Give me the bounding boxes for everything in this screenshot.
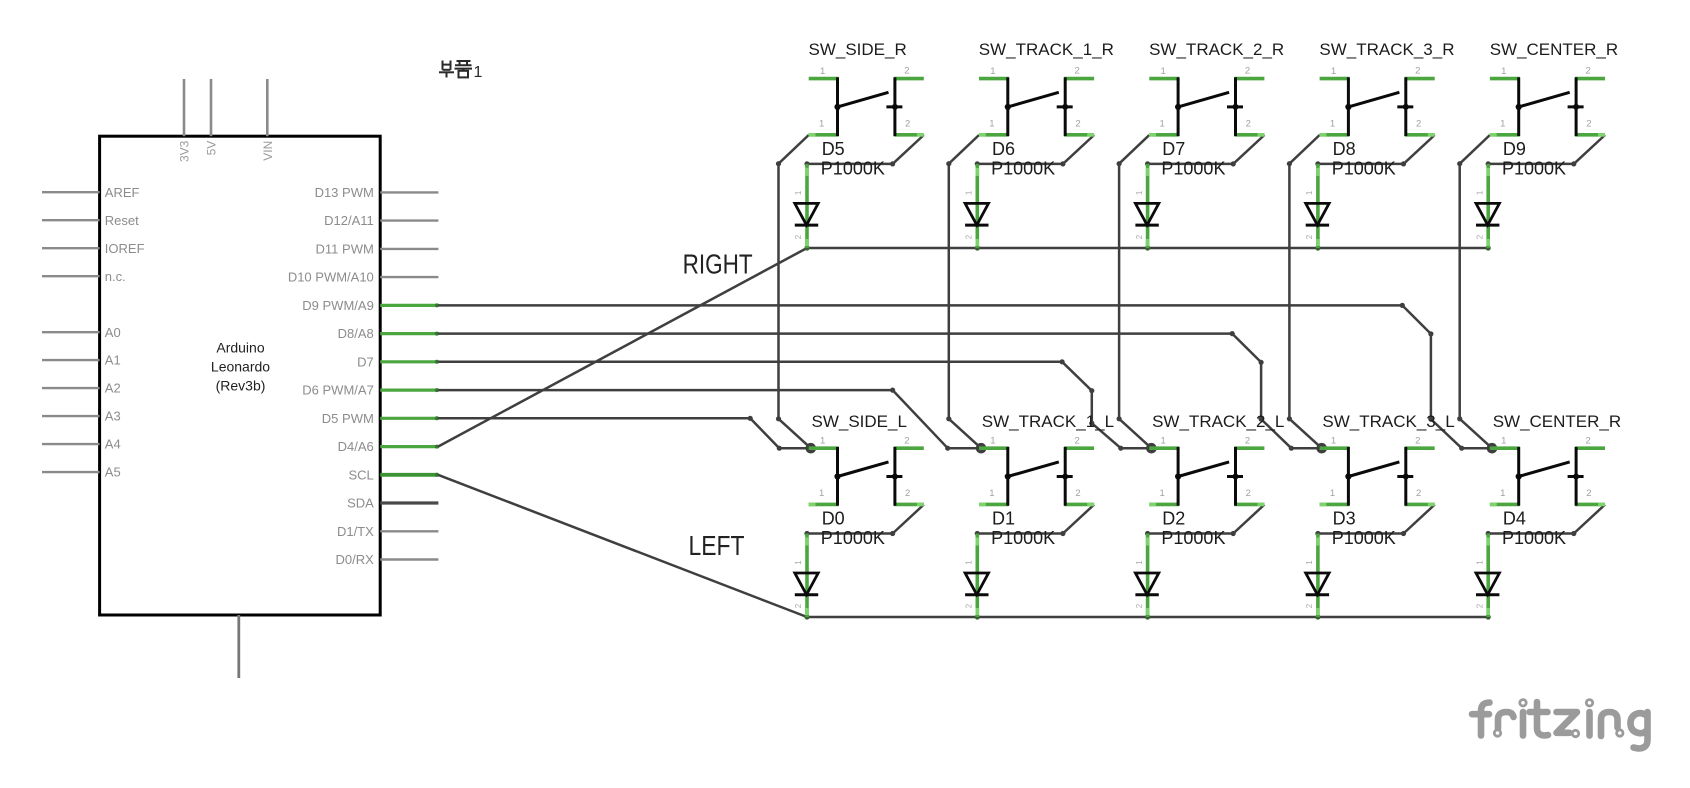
pin D8/A8 [338,326,439,341]
svg-text:1: 1 [1305,190,1314,195]
svg-text:2: 2 [904,66,909,77]
pin Reset [42,213,139,228]
svg-text:A0: A0 [105,325,121,340]
svg-text:A2: A2 [105,381,121,396]
svg-text:1: 1 [1475,560,1484,565]
node SW_TRACK_2_L pin1 junction [1146,443,1157,454]
wire SW_TRACK_2_R pin2 to diode [1145,135,1264,166]
svg-text:2: 2 [1246,119,1251,130]
svg-text:2: 2 [1075,66,1080,77]
diode D6 P1000K [965,139,1056,248]
svg-text:2: 2 [905,119,910,130]
svg-text:D5 PWM: D5 PWM [322,411,374,426]
pin D1/TX [337,524,438,539]
svg-text:SW_TRACK_2_R: SW_TRACK_2_R [1149,40,1284,59]
svg-text:D9 PWM/A9: D9 PWM/A9 [302,298,374,313]
wire SW_TRACK_3_L pin2 to diode [1315,505,1434,537]
pin VIN (top stub) [261,79,275,161]
wire SW_SIDE_R pin2 to diode [804,135,923,166]
node SW_CENTER_R pin1 junction [1487,443,1498,454]
svg-text:2: 2 [1586,119,1591,130]
svg-text:1: 1 [990,66,995,77]
pin SCL [349,467,439,482]
svg-text:2: 2 [904,435,909,446]
wire SW_CENTER_R pin2 to diode [1486,505,1605,537]
pin D5 PWM [322,411,439,426]
diode D5 P1000K [794,139,885,248]
wire D7 row [438,359,1151,451]
svg-text:D7: D7 [357,354,374,369]
svg-text:D12/A11: D12/A11 [324,213,374,228]
svg-text:2: 2 [965,603,974,608]
svg-text:SW_TRACK_3_R: SW_TRACK_3_R [1319,40,1454,59]
svg-text:2: 2 [794,234,803,239]
svg-text:2: 2 [1075,119,1080,130]
svg-text:(Rev3b): (Rev3b) [216,378,266,394]
wire SW_SIDE_L pin2 to diode [804,505,923,537]
svg-text:1: 1 [794,190,803,195]
diode D0 P1000K [794,509,885,617]
wire SW_TRACK_1_R pin2 to diode [975,135,1094,166]
svg-text:SW_TRACK_1_R: SW_TRACK_1_R [979,40,1114,59]
svg-text:1: 1 [820,66,825,77]
svg-text:2: 2 [1135,234,1144,239]
wire column 3 (SW_TRACK_2_R pin1 to SW_TRACK_2_L pin1) [1117,135,1152,448]
svg-text:n.c.: n.c. [105,269,126,284]
pin A5 [42,465,121,480]
svg-text:D9: D9 [1503,139,1526,159]
svg-text:P1000K: P1000K [1161,159,1225,179]
wire D6 PWM/A7 row [438,388,981,451]
svg-text:1: 1 [1160,119,1165,130]
switch SW_TRACK_1_R [979,40,1114,136]
wire SW_TRACK_3_R pin2 to diode [1315,135,1434,166]
node RIGHT net label [683,249,753,280]
pin D12/A11 [324,213,438,228]
wire D8/A8 row [438,331,1322,451]
svg-text:A5: A5 [105,465,121,480]
svg-text:2: 2 [1075,488,1080,499]
pin A2 [42,381,121,396]
wire column 4 (SW_TRACK_3_R pin1 to SW_TRACK_3_L pin1) [1287,135,1322,448]
svg-text:D8/A8: D8/A8 [338,326,374,341]
svg-text:P1000K: P1000K [991,159,1055,179]
svg-text:A3: A3 [105,409,121,424]
svg-text:D8: D8 [1333,139,1356,159]
svg-text:AREF: AREF [105,185,140,200]
svg-text:SW_SIDE_L: SW_SIDE_L [812,412,907,431]
svg-text:1: 1 [820,436,825,447]
svg-text:A1: A1 [105,353,121,368]
svg-text:1: 1 [1331,436,1336,447]
pin D11 PWM [316,242,439,257]
pin GND (bottom stub) [237,615,240,678]
wire column 5 (SW_CENTER_R pin1 to SW_CENTER_R pin1) [1457,135,1492,448]
svg-text:RIGHT: RIGHT [683,249,753,280]
svg-text:2: 2 [1305,603,1314,608]
switch SW_CENTER_R [1490,412,1621,506]
svg-text:1: 1 [1330,488,1335,499]
diode D2 P1000K [1135,509,1226,617]
pin D13 PWM [315,185,439,200]
svg-text:1: 1 [1305,560,1314,565]
svg-text:1: 1 [819,488,824,499]
svg-text:SW_TRACK_1_L: SW_TRACK_1_L [982,412,1114,431]
svg-text:P1000K: P1000K [1161,528,1225,548]
pin SDA [347,496,438,511]
wire D9 PWM/A9 row [438,303,1493,451]
svg-text:2: 2 [1585,435,1590,446]
svg-text:Leonardo: Leonardo [211,359,270,375]
svg-text:1: 1 [1501,66,1506,77]
pin A0 [42,325,121,340]
svg-text:2: 2 [1475,603,1484,608]
svg-text:P1000K: P1000K [821,159,885,179]
svg-text:SW_TRACK_2_L: SW_TRACK_2_L [1152,412,1284,431]
diode D1 P1000K [965,509,1056,617]
svg-text:D2: D2 [1162,509,1185,529]
svg-text:1: 1 [965,190,974,195]
svg-text:D10 PWM/A10: D10 PWM/A10 [288,270,374,285]
svg-text:D0: D0 [822,509,845,529]
svg-text:2: 2 [1245,66,1250,77]
svg-text:1: 1 [1475,190,1484,195]
svg-text:1: 1 [1160,488,1165,499]
op-amp U1 Arduino Leonardo (Rev3b) body [100,136,381,615]
svg-text:P1000K: P1000K [1502,159,1566,179]
pin A3 [42,409,121,424]
svg-text:1: 1 [1135,190,1144,195]
svg-text:D0/RX: D0/RX [336,552,375,567]
svg-text:Arduino: Arduino [216,340,264,356]
svg-text:D13 PWM: D13 PWM [315,185,374,200]
svg-text:D3: D3 [1333,509,1356,529]
pin n.c. [42,269,126,284]
switch SW_TRACK_3_L [1320,412,1455,506]
svg-text:2: 2 [1245,435,1250,446]
svg-text:1: 1 [1135,560,1144,565]
node LEFT net label [689,530,745,561]
svg-text:2: 2 [1475,234,1484,239]
svg-text:SW_TRACK_3_L: SW_TRACK_3_L [1322,412,1454,431]
svg-text:D1/TX: D1/TX [337,524,374,539]
svg-text:1: 1 [819,119,824,130]
pin 5V (top stub) [205,79,219,155]
svg-text:2: 2 [1585,66,1590,77]
svg-text:1: 1 [1500,488,1505,499]
svg-text:2: 2 [905,488,910,499]
svg-text:P1000K: P1000K [991,528,1055,548]
svg-text:P1000K: P1000K [1332,159,1396,179]
node SW_TRACK_3_L pin1 junction [1316,443,1327,454]
pin IOREF [42,241,145,256]
label Arduino Leonardo (Rev3b) [211,340,270,394]
pin D10 PWM/A10 [288,270,439,285]
wire RIGHT bus (D4/A6) [438,245,1491,446]
switch SW_CENTER_R [1490,40,1618,136]
svg-text:Reset: Reset [105,213,139,228]
svg-text:1: 1 [794,560,803,565]
switch SW_SIDE_R [809,40,924,136]
switch SW_SIDE_L [809,412,924,506]
wire SW_TRACK_1_L pin2 to diode [975,505,1094,537]
svg-text:2: 2 [1416,488,1421,499]
svg-text:2: 2 [965,234,974,239]
svg-text:1: 1 [989,119,994,130]
svg-text:2: 2 [1415,66,1420,77]
svg-text:D6 PWM/A7: D6 PWM/A7 [302,383,374,398]
svg-text:SDA: SDA [347,496,374,511]
switch SW_TRACK_2_L [1149,412,1284,506]
diode D4 P1000K [1475,509,1566,617]
svg-text:LEFT: LEFT [689,530,745,561]
pin AREF [42,185,140,200]
node SW_SIDE_L pin1 junction [806,443,817,454]
svg-text:1: 1 [474,64,483,81]
wire SW_TRACK_2_L pin2 to diode [1145,505,1264,537]
pin 3V3 (top stub) [178,79,192,162]
svg-text:D6: D6 [992,139,1015,159]
svg-text:2: 2 [1075,435,1080,446]
svg-text:1: 1 [1161,436,1166,447]
wire LEFT bus (SCL) [438,475,1491,620]
diode D8 P1000K [1305,139,1396,248]
wire column 1 (SW_SIDE_R pin1 to SW_SIDE_L pin1) [776,135,811,448]
diode D3 P1000K [1305,509,1396,617]
svg-text:2: 2 [794,603,803,608]
svg-text:P1000K: P1000K [1332,528,1396,548]
svg-text:A4: A4 [105,437,121,452]
svg-text:5V: 5V [205,141,219,156]
svg-text:D11 PWM: D11 PWM [316,242,374,257]
switch SW_TRACK_2_R [1149,40,1284,136]
svg-text:P1000K: P1000K [821,528,885,548]
wire SW_CENTER_R pin2 to diode [1486,135,1605,166]
pin D6 PWM/A7 [302,383,439,398]
svg-text:IOREF: IOREF [105,241,145,256]
svg-text:D1: D1 [992,509,1015,529]
svg-text:D4: D4 [1503,509,1526,529]
diode D7 P1000K [1135,139,1226,248]
svg-text:1: 1 [1161,66,1166,77]
svg-text:1: 1 [1501,436,1506,447]
fritzing logo [1472,700,1648,749]
pin D9 PWM/A9 [302,298,439,313]
pin D7 [357,354,439,369]
svg-text:2: 2 [1246,488,1251,499]
svg-text:1: 1 [1331,66,1336,77]
label 부품1 [439,61,483,82]
svg-text:3V3: 3V3 [178,140,192,162]
node SW_TRACK_1_L pin1 junction [976,443,987,454]
svg-text:2: 2 [1586,488,1591,499]
diode D9 P1000K [1475,139,1566,248]
svg-text:VIN: VIN [261,141,275,161]
svg-text:1: 1 [989,488,994,499]
svg-text:1: 1 [1330,119,1335,130]
svg-text:SW_SIDE_R: SW_SIDE_R [809,40,907,59]
svg-text:1: 1 [1500,119,1505,130]
pin A4 [42,437,121,452]
svg-text:SW_CENTER_R: SW_CENTER_R [1490,40,1618,59]
svg-text:D5: D5 [822,139,845,159]
svg-text:2: 2 [1415,435,1420,446]
switch SW_TRACK_3_R [1319,40,1454,136]
svg-text:D4/A6: D4/A6 [338,439,374,454]
svg-text:P1000K: P1000K [1502,528,1566,548]
pin D0/RX [336,552,439,567]
wire column 2 (SW_TRACK_1_R pin1 to SW_TRACK_1_L pin1) [946,135,981,448]
svg-text:D7: D7 [1162,139,1185,159]
svg-text:1: 1 [965,560,974,565]
switch SW_TRACK_1_L [979,412,1114,506]
svg-text:2: 2 [1305,234,1314,239]
svg-text:2: 2 [1135,603,1144,608]
wire D5 PWM row [438,416,811,451]
pin D4/A6 [338,439,439,454]
svg-text:SW_CENTER_R: SW_CENTER_R [1493,412,1621,431]
pin A1 [42,353,121,368]
svg-text:1: 1 [990,436,995,447]
svg-text:SCL: SCL [349,467,374,482]
svg-text:2: 2 [1416,119,1421,130]
